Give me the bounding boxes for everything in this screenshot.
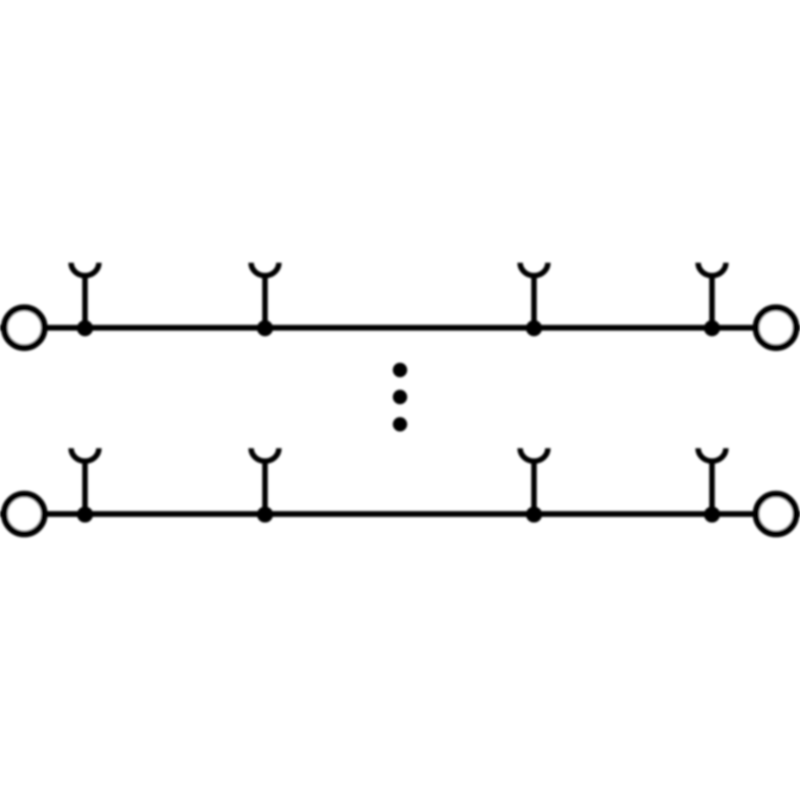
- junction dot 2 (bottom row): [257, 506, 273, 522]
- terminal circle: bottom-right: [756, 494, 796, 534]
- ellipsis dot upper: [393, 363, 407, 377]
- fork contact 2 (bottom row): [251, 448, 279, 514]
- ellipsis dot middle: [393, 390, 407, 404]
- terminal circle: bottom-left: [4, 494, 44, 534]
- wire: top bus: [0, 325, 800, 331]
- terminal circle: top-left: [4, 308, 44, 348]
- junction dot 3 (top row): [526, 320, 542, 336]
- wire: bottom bus: [0, 511, 800, 517]
- junction dot 1 (top row): [77, 320, 93, 336]
- junction dot 3 (bottom row): [526, 506, 542, 522]
- fork contact 4 (bottom row): [698, 448, 726, 514]
- junction dot 4 (top row): [704, 320, 720, 336]
- fork contact 1 (bottom row): [71, 448, 99, 514]
- fork contact 2 (top row): [251, 263, 279, 328]
- fork contact 3 (bottom row): [520, 448, 548, 514]
- ellipsis dot lower: [393, 417, 407, 431]
- junction dot 1 (bottom row): [77, 506, 93, 522]
- junction dot 2 (top row): [257, 320, 273, 336]
- terminal circle: top-right: [756, 308, 796, 348]
- junction dot 4 (bottom row): [704, 506, 720, 522]
- fork contact 1 (top row): [71, 263, 99, 328]
- fork contact 4 (top row): [698, 263, 726, 328]
- fork contact 3 (top row): [520, 263, 548, 328]
